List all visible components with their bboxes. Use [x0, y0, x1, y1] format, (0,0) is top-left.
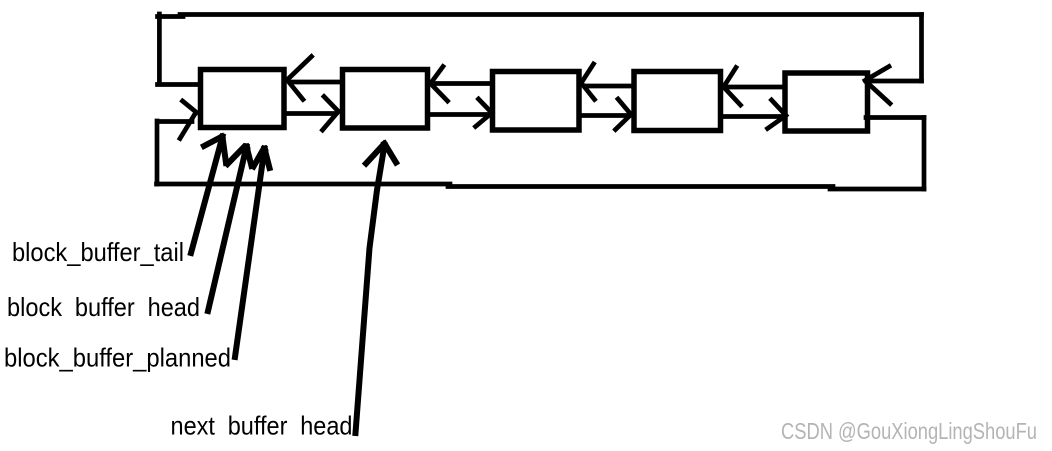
wire: next pointer buffer2 to buffer3 — [428, 112, 488, 117]
arrowhead into buffer5 right edge — [865, 67, 889, 81]
arrowhead into buffer5 left edge — [772, 100, 787, 116]
svg-text:block buffer head: block buffer head — [7, 292, 200, 322]
wire: bottom loop left vertical — [155, 121, 160, 184]
tip blob on block buffer head arrow — [243, 145, 251, 153]
wire: bottom loop bottom horizontal left part — [157, 182, 451, 187]
wire: next pointer buffer3 to buffer4 — [579, 113, 628, 118]
box buffer4 — [634, 72, 721, 131]
box buffer3 — [493, 72, 580, 131]
arrow pointer block_buffer_tail — [191, 137, 223, 254]
wire: bottom loop bottom horizontal right part — [830, 187, 924, 192]
arrowhead into buffer3 left edge — [479, 99, 493, 113]
wire: next pointer buffer4 to buffer5 — [721, 114, 782, 119]
arrowhead into buffer4 left edge — [618, 99, 631, 115]
box buffer5 — [785, 73, 868, 131]
arrowhead into buffer1 right edge — [288, 57, 312, 80]
box buffer1 — [201, 70, 285, 128]
arrowhead into buffer2 right edge — [431, 67, 444, 84]
svg-text:block_buffer_tail: block_buffer_tail — [12, 237, 184, 267]
arrow pointer next buffer head — [356, 145, 385, 433]
arrow pointer block buffer head — [208, 147, 247, 312]
wire: bottom loop stub toward buffer1 — [158, 119, 193, 124]
wire: top loop left vertical — [157, 14, 162, 82]
tip blob on block_buffer_planned arrow — [261, 147, 269, 155]
arrowhead into buffer3 right edge — [582, 64, 594, 83]
wire: bottom loop right vertical — [922, 118, 927, 190]
svg-text:CSDN @GouXiongLingShouFu: CSDN @GouXiongLingShouFu — [781, 418, 1037, 444]
wire: next pointer buffer1 to buffer2 — [284, 111, 334, 116]
box buffer2 — [343, 70, 428, 129]
wire: prev pointer buffer2 to buffer1 — [291, 80, 342, 85]
svg-text:next buffer head: next buffer head — [171, 411, 353, 441]
arrowhead into buffer4 right edge — [724, 68, 737, 88]
wire: bottom loop bottom horizontal mid part — [448, 184, 833, 189]
wire: prev pointer buffer4 to buffer3 — [587, 84, 634, 89]
wire: prev pointer buffer3 to buffer2 — [436, 81, 493, 86]
wire: top loop into buffer5 — [867, 79, 922, 84]
wire: top loop top horizontal left part — [158, 14, 184, 19]
arrowhead into buffer2 left edge — [324, 97, 339, 112]
wire: top loop right vertical — [919, 15, 924, 82]
arrow pointer block_buffer_planned — [235, 149, 265, 358]
wire: bottom loop from buffer5 right — [866, 115, 924, 120]
wire: top loop top horizontal main — [180, 12, 922, 17]
svg-text:block_buffer_planned: block_buffer_planned — [4, 343, 231, 373]
arrowhead into buffer1 left edge — [183, 101, 197, 113]
wire: prev pointer buffer5 to buffer4 — [728, 85, 785, 90]
wire: top loop stub into buffer1 — [158, 82, 198, 87]
